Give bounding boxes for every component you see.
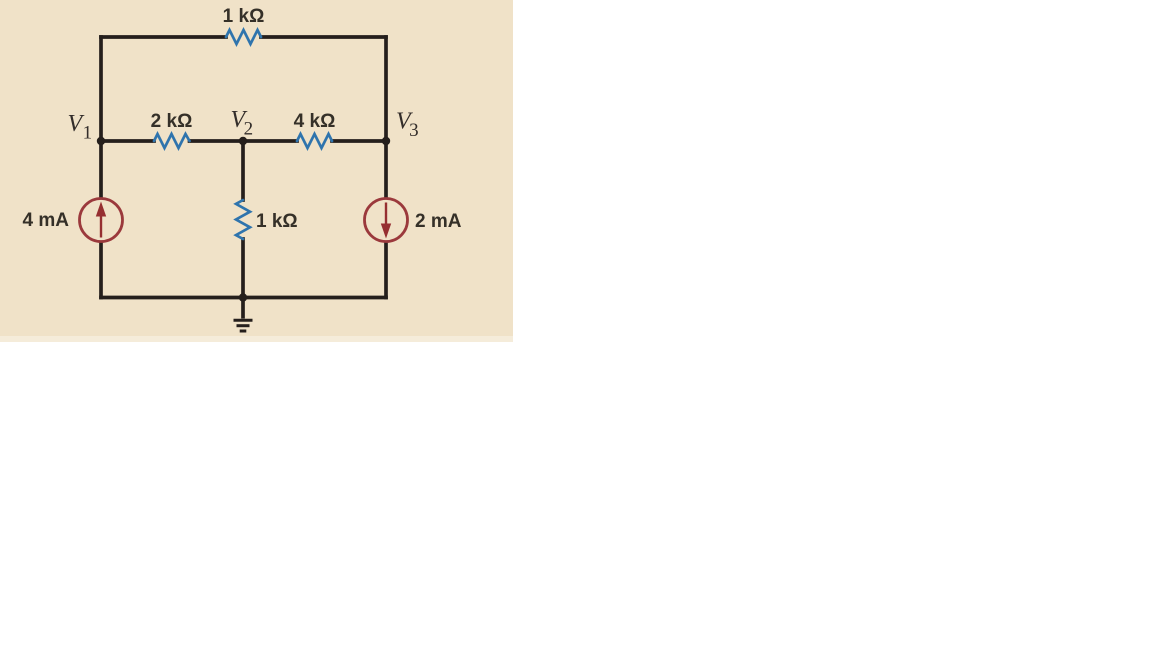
arrow of 2 mA source (down): [381, 203, 391, 239]
wire middle vertical lower: 1k resistor to bottom rail: [241, 239, 245, 298]
resistor R 1 kOhm (top): [226, 30, 261, 44]
arrow of 4 mA source (up): [96, 202, 106, 238]
svg-text:2 kΩ: 2 kΩ: [151, 111, 193, 132]
node V2 junction dot: [239, 137, 247, 145]
svg-text:4 kΩ: 4 kΩ: [294, 111, 336, 132]
svg-text:4 mA: 4 mA: [23, 210, 70, 231]
resistor R 1 kOhm (vertical, below V2): [236, 200, 250, 239]
wire bottom rail: [101, 296, 386, 300]
wire left vertical lower: 4mA source to bottom rail: [99, 242, 103, 298]
node V1 junction dot: [97, 137, 105, 145]
current source I2 2 mA: [365, 199, 408, 242]
wire top: V1 top corner to V3 top corner, gap for R top: [101, 35, 386, 39]
current source I1 4 mA: [80, 199, 123, 242]
bottom junction dot: [239, 293, 247, 301]
resistor R 4 kOhm: [297, 134, 332, 148]
wire middle vertical: V2 down to 1k resistor: [241, 141, 245, 200]
wire left vertical: top corner down to 4mA source: [99, 37, 103, 198]
ground: [234, 298, 253, 332]
resistor R 2 kOhm: [154, 134, 190, 148]
svg-text:1 kΩ: 1 kΩ: [223, 6, 265, 27]
wire middle rail V1-V2-V3 with resistor gaps: [101, 139, 386, 143]
wire right vertical lower: 2mA source to bottom rail: [384, 242, 388, 298]
wire right vertical: top corner down to 2mA source: [384, 37, 388, 198]
svg-text:2 mA: 2 mA: [415, 211, 462, 232]
svg-text:1 kΩ: 1 kΩ: [256, 211, 298, 232]
figure background panel: [0, 0, 513, 342]
node V3 junction dot: [382, 137, 390, 145]
